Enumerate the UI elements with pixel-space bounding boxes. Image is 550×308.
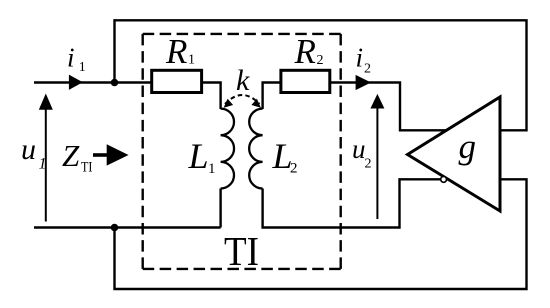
resistor R2 [281,70,330,92]
coupling arrow k (dashed double arc) [224,95,261,108]
svg-text:2: 2 [364,62,371,77]
svg-text:1: 1 [208,161,216,177]
svg-text:i: i [67,43,75,73]
wire: bottom-left rail [34,226,221,228]
svg-text:R: R [294,32,316,71]
svg-text:k: k [236,64,250,97]
label TI [224,228,259,274]
svg-text:u: u [352,134,366,164]
resistor R1 [152,70,202,92]
label R2 [294,32,324,71]
node: top junction [111,79,119,87]
svg-text:1: 1 [39,156,47,173]
label Z_TI [62,138,93,176]
wire: L2 top to R2 [263,83,281,110]
impedance arrow Z_TI [93,144,129,165]
inductor L1 [221,109,234,189]
label g [459,127,477,166]
svg-text:R: R [165,32,187,71]
svg-text:2: 2 [365,157,372,172]
label i2 [356,43,372,77]
svg-text:TI: TI [224,228,259,274]
wire: top feedback (junction up, across top, down right side to amp stub) [115,20,527,130]
svg-text:L: L [188,136,209,176]
label i1 [67,43,86,76]
svg-text:1: 1 [188,53,195,68]
label L1 [188,136,216,177]
node: bottom junction [111,224,119,232]
svg-text:2: 2 [317,53,324,68]
inductor L2 [249,109,262,189]
wire: top-left input rail to R1 [34,81,152,83]
label L2 [272,136,298,177]
svg-text:1: 1 [79,60,86,75]
svg-text:g: g [459,127,477,166]
svg-text:2: 2 [290,161,298,177]
wire: L2 bottom rail to amp lower input [263,179,441,227]
voltage arrow u2 [370,94,384,219]
current arrow i2 [356,75,371,90]
amplifier U1 (triangle, gain g) [408,97,501,211]
svg-text:TI: TI [81,160,93,176]
wire: R2 to amp upper input [330,83,447,131]
inversion bubble on amp lower edge [441,177,447,183]
svg-text:Z: Z [62,138,80,173]
label u1 [21,133,47,173]
current arrow i1 [69,75,83,90]
label k [236,64,250,97]
svg-text:u: u [21,133,36,166]
wire: bottom feedback (junction down, across bottom, up right side to amp stub) [115,179,527,289]
label R1 [165,32,195,71]
wire: L1 bottom to bottom rail [219,189,221,228]
label u2 [352,134,372,172]
transformer boundary TI (dashed box) [143,34,341,269]
voltage arrow u1 [39,94,53,222]
wire: R1 to L1 top [202,83,221,110]
svg-text:i: i [356,43,364,73]
